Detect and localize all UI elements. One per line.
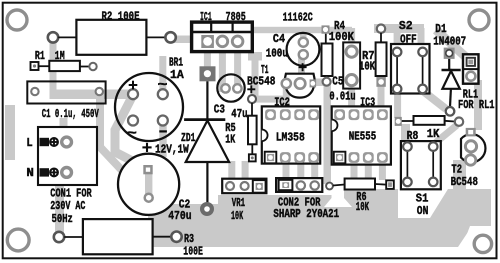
svg-text:N: N: [26, 166, 33, 180]
svg-text:11162C: 11162C: [283, 11, 314, 25]
svg-text:C4: C4: [273, 32, 286, 46]
svg-text:SHARP 2Y0A21: SHARP 2Y0A21: [273, 207, 339, 221]
svg-text:VR1: VR1: [232, 196, 245, 210]
svg-text:R2 100E: R2 100E: [102, 9, 140, 23]
svg-text:50Hz: 50Hz: [52, 212, 73, 226]
svg-text:NE555: NE555: [349, 130, 376, 144]
svg-text:LM358: LM358: [276, 131, 305, 145]
svg-text:1N4007: 1N4007: [433, 35, 466, 49]
svg-text:0.01u: 0.01u: [329, 90, 355, 104]
svg-text:100u: 100u: [266, 47, 288, 61]
svg-text:R8: R8: [407, 129, 419, 143]
svg-text:230V AC: 230V AC: [50, 199, 86, 213]
svg-text:10K: 10K: [359, 59, 375, 73]
svg-text:C5: C5: [332, 74, 343, 88]
svg-text:OFF: OFF: [400, 33, 417, 47]
svg-text:BC548: BC548: [451, 175, 478, 189]
svg-text:IC1: IC1: [200, 10, 212, 24]
svg-text:12V,1W: 12V,1W: [155, 142, 189, 156]
svg-text:100E: 100E: [183, 244, 203, 258]
svg-text:1A: 1A: [170, 68, 184, 82]
svg-text:FOR RL1: FOR RL1: [458, 98, 495, 112]
svg-text:7805: 7805: [226, 10, 246, 24]
svg-text:R1: R1: [35, 49, 45, 63]
svg-text:1K: 1K: [427, 127, 440, 141]
svg-text:C1 0.1u, 450V: C1 0.1u, 450V: [42, 107, 99, 121]
svg-text:IC2: IC2: [274, 95, 290, 109]
svg-text:10K: 10K: [356, 200, 370, 214]
svg-text:IC3: IC3: [360, 95, 375, 109]
svg-text:1K: 1K: [225, 132, 235, 146]
svg-text:~: ~: [127, 126, 137, 142]
svg-text:C3: C3: [214, 102, 225, 116]
svg-text:470u: 470u: [168, 209, 191, 223]
svg-text:L: L: [26, 136, 32, 150]
svg-text:100K: 100K: [329, 30, 355, 44]
svg-text:1M: 1M: [55, 49, 65, 63]
svg-text:ON: ON: [417, 204, 429, 218]
svg-text:~: ~: [158, 78, 168, 94]
svg-text:10K: 10K: [231, 209, 243, 223]
svg-text:S2: S2: [399, 19, 413, 33]
svg-text:47u: 47u: [231, 107, 247, 121]
